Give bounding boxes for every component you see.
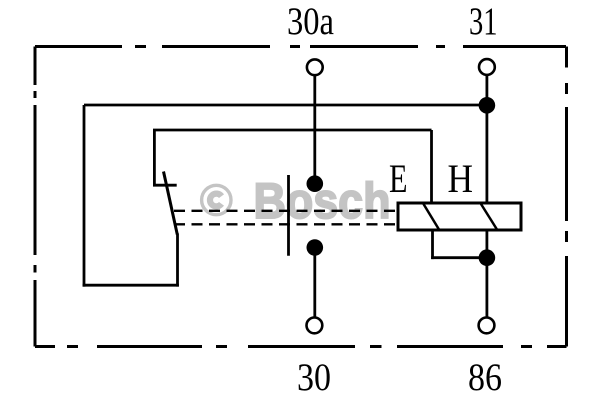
wire from lower contact down to terminal 30 (313, 252, 316, 317)
wire from terminal 30a down to upper contact (313, 76, 316, 178)
wire from terminal 31 down to heater box (485, 76, 488, 203)
switch blade (breaker contact) (164, 172, 178, 235)
mechanical linkage dashed line upper (174, 210, 398, 212)
svg-text:30a: 30a (287, 0, 334, 43)
left loop vertical wire (83, 105, 86, 287)
watermark copyright symbol (202, 185, 231, 214)
E leg vertical wire (430, 130, 433, 203)
wire up from loop to switch blade (176, 234, 179, 287)
terminal 86 circle (479, 318, 495, 334)
junction node on wire 31 (479, 97, 496, 114)
svg-text:30: 30 (297, 355, 331, 399)
fixed contact stem wire (153, 130, 156, 185)
movable contact plate (287, 175, 290, 256)
heater element box (398, 203, 521, 230)
lower contact dot (307, 239, 324, 256)
svg-text:31: 31 (469, 0, 498, 43)
upper contact dot (307, 175, 324, 192)
relay housing outline (dash-dot enclosure) (35, 47, 567, 347)
heater box diagonal 2 (481, 204, 497, 230)
terminal 30 circle (307, 318, 323, 334)
terminal 31 circle (479, 59, 495, 75)
loop bottom horizontal wire (83, 284, 179, 287)
heater box diagonal 1 (424, 204, 440, 230)
terminal 30a circle (307, 59, 323, 75)
svg-text:86: 86 (468, 355, 502, 399)
long horizontal wire to junction (84, 104, 487, 107)
mechanical linkage dashed line lower (174, 223, 398, 225)
svg-text:E: E (389, 156, 408, 201)
horizontal wire from switch to E leg (153, 129, 432, 132)
left leg below heater box (431, 230, 434, 259)
fixed contact bar (153, 184, 177, 187)
svg-text:H: H (448, 156, 474, 201)
right leg from heater box to terminal 86 (485, 230, 488, 317)
junction node below heater box (479, 249, 496, 266)
horizontal wire below heater box (431, 256, 487, 259)
